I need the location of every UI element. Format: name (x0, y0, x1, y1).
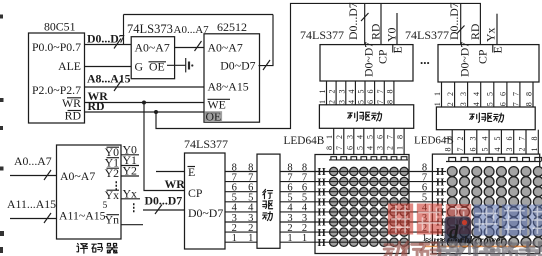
LED matrix DS2 LED64B (432, 154, 542, 253)
svg-text:8: 8 (396, 135, 405, 139)
junction RD node (154, 110, 158, 114)
SRAM 62512 U3 (204, 20, 260, 124)
svg-text:1: 1 (433, 92, 442, 96)
scan artifact marks left edge (0, 15, 4, 254)
wire RD drop U7 (369, 3, 383, 44)
decoder output pin Y2 (105, 164, 139, 181)
svg-text:ALE: ALE (58, 59, 81, 73)
svg-text:RD: RD (468, 23, 482, 40)
svg-text:7: 7 (456, 148, 465, 152)
wire RD net (85, 99, 205, 113)
decoder output pin Yx (105, 187, 140, 203)
watermark cursive slogan (425, 236, 535, 248)
row wires driver to LED matrix with pin numbers (280, 162, 315, 244)
svg-text:RD: RD (88, 99, 105, 113)
svg-text:4: 4 (355, 135, 364, 139)
svg-text:4: 4 (472, 102, 481, 106)
svg-text:1: 1 (530, 148, 539, 152)
wire address bus A8...A15 (85, 72, 205, 92)
svg-text:D0~D7: D0~D7 (458, 42, 472, 77)
svg-text:2: 2 (456, 137, 465, 141)
svg-text:6: 6 (366, 90, 375, 94)
svg-text:P2.0~P2.7: P2.0~P2.7 (32, 83, 81, 97)
svg-text:2: 2 (446, 92, 455, 96)
svg-text:8: 8 (385, 100, 394, 104)
bus slash on 62512 data stub (263, 60, 270, 70)
LED matrix DS1 LED64B (315, 155, 409, 254)
svg-text:6: 6 (366, 100, 375, 104)
svg-text:5: 5 (365, 135, 374, 139)
svg-text:5: 5 (485, 102, 494, 106)
svg-text:6: 6 (498, 92, 507, 96)
wire Y0 drop U7 enable (385, 13, 399, 45)
svg-text:1: 1 (433, 102, 442, 106)
svg-text:3: 3 (468, 137, 477, 141)
column driver 列驱动 U10 (436, 107, 535, 130)
svg-text:7: 7 (511, 102, 520, 106)
svg-text:5: 5 (103, 201, 108, 211)
svg-text:5: 5 (485, 92, 494, 96)
svg-text:74LS377: 74LS377 (300, 28, 344, 42)
svg-text:8: 8 (525, 92, 534, 96)
svg-text:1: 1 (302, 233, 307, 244)
svg-text:1: 1 (396, 146, 405, 150)
junction WR node (142, 101, 146, 105)
svg-text:1: 1 (248, 233, 253, 244)
label 译码器 decoder caption (77, 244, 88, 254)
svg-text:6: 6 (468, 148, 477, 152)
svg-text:1: 1 (318, 90, 327, 94)
svg-text:H: H (318, 238, 326, 249)
svg-text:1: 1 (287, 233, 292, 244)
svg-text:3: 3 (345, 135, 354, 139)
svg-text:E: E (188, 165, 195, 179)
column wires U8 to column driver with pin numbers (433, 82, 534, 107)
svg-text:7: 7 (376, 100, 385, 104)
wire P0 data bus D0...D7 (85, 32, 132, 49)
svg-text:80C51: 80C51 (44, 20, 76, 34)
svg-text:A0~A7: A0~A7 (135, 41, 170, 55)
svg-text:A0...A7: A0...A7 (14, 154, 52, 168)
wire top data rail (124, 14, 274, 16)
svg-text:Y2: Y2 (123, 164, 138, 178)
svg-text:3: 3 (459, 102, 468, 106)
column latch 74LS377 U8 (405, 28, 539, 82)
svg-text:5: 5 (355, 146, 364, 150)
wire decoder input A11...A15 (7, 197, 57, 223)
decoder output pin Y1 (105, 153, 139, 170)
wire WR drop to row latch CP (144, 103, 185, 191)
decoder output pin Yn (105, 213, 143, 227)
svg-text:74LS377: 74LS377 (405, 28, 449, 42)
svg-text:4: 4 (493, 148, 502, 152)
wire Y2 to row latch E (156, 171, 185, 173)
svg-text:62512: 62512 (217, 20, 247, 34)
OE termination cell symbol (167, 58, 193, 72)
row wires to second LED matrix with pin numbers (409, 162, 432, 244)
row latch 74LS377 U5 (184, 137, 228, 249)
U8 pin E (491, 45, 505, 54)
label 列驱动 left column driver (348, 112, 358, 121)
wire A0~A7 latch to sram (175, 41, 204, 51)
svg-text:G: G (135, 60, 144, 74)
svg-text:6: 6 (498, 102, 507, 106)
svg-text:8: 8 (385, 90, 394, 94)
svg-text:8: 8 (325, 146, 334, 150)
svg-text:CP: CP (188, 186, 203, 200)
watermark logo tile (445, 217, 472, 244)
svg-text:3: 3 (337, 90, 346, 94)
svg-text:3: 3 (337, 100, 346, 104)
svg-text:LED64B: LED64B (414, 135, 454, 147)
svg-text:OE: OE (206, 110, 222, 124)
column wires right driver to LED matrix with pin numbers (444, 130, 539, 154)
decoder 译码器 U4 (57, 145, 122, 239)
column driver 列驱动 U9 (319, 105, 413, 129)
svg-text:1: 1 (318, 100, 327, 104)
svg-text:3: 3 (505, 148, 514, 152)
svg-text:2: 2 (518, 148, 527, 152)
column wires driver to LED matrix with pin numbers (325, 128, 404, 154)
svg-text:4: 4 (472, 92, 481, 96)
svg-text:8: 8 (444, 148, 453, 152)
svg-text:74LS373: 74LS373 (127, 22, 173, 36)
svg-text:2: 2 (446, 102, 455, 106)
svg-text:7: 7 (386, 135, 395, 139)
svg-text:A11~A15: A11~A15 (59, 209, 106, 223)
svg-text:D0...D7: D0...D7 (87, 32, 125, 46)
wire decoder input A0...A7 (10, 154, 57, 180)
label 行驱动 row driver (263, 189, 273, 198)
svg-text:74LS377: 74LS377 (184, 137, 228, 151)
svg-text:D0~D7: D0~D7 (362, 42, 376, 77)
svg-text:D0...D7: D0...D7 (447, 2, 461, 40)
svg-text:7: 7 (518, 137, 527, 141)
svg-text:Yx: Yx (484, 27, 498, 42)
microcontroller 80C51 U1 (29, 20, 85, 124)
column latch 74LS377 U7 (300, 28, 413, 81)
svg-text:A8~A15: A8~A15 (208, 80, 249, 94)
svg-text:⋮: ⋮ (129, 202, 140, 214)
svg-text:5: 5 (357, 100, 366, 104)
svg-text:5: 5 (357, 90, 366, 94)
svg-text:LED64B: LED64B (284, 135, 325, 147)
decoder output pin Y0 (105, 143, 139, 160)
wire WR net (85, 89, 205, 103)
svg-text:2: 2 (335, 135, 344, 139)
latch 74LS373 U2 (127, 22, 209, 79)
wire D bus drop U7 (346, 2, 369, 44)
svg-text:RD: RD (369, 23, 383, 40)
wire rail drop into 62512 D0~D7 (259, 15, 274, 66)
wire data bus into row latch (143, 194, 185, 215)
svg-text:A8...A15: A8...A15 (87, 72, 131, 86)
svg-text:2: 2 (328, 90, 337, 94)
svg-text:2: 2 (386, 146, 395, 150)
svg-text:3: 3 (375, 146, 384, 150)
row driver 行驱动 U6 (257, 154, 280, 248)
label 列驱动 right column driver (470, 113, 480, 122)
watermark red blocky characters (388, 203, 413, 234)
svg-text:8: 8 (525, 102, 534, 106)
svg-text:D0...D7: D0...D7 (346, 2, 360, 40)
svg-text:D0~D7: D0~D7 (220, 59, 255, 73)
column wires U7 to column driver with pin numbers (318, 81, 394, 105)
wire RD route to top right rail (156, 3, 480, 128)
svg-text:D0~D7: D0~D7 (188, 206, 223, 220)
svg-text:A0~A7: A0~A7 (208, 41, 243, 55)
svg-text:A11...A15: A11...A15 (7, 197, 56, 211)
svg-text:6: 6 (375, 135, 384, 139)
svg-text:7: 7 (376, 90, 385, 94)
svg-text:WR: WR (165, 177, 186, 191)
svg-text:CP: CP (376, 49, 390, 64)
svg-text:1: 1 (325, 135, 334, 139)
svg-text:4: 4 (347, 90, 356, 94)
watermark blue blocky characters (474, 204, 499, 235)
svg-text:Y0: Y0 (385, 27, 399, 42)
svg-text:7: 7 (335, 146, 344, 150)
wire D bus drop U8 (447, 2, 465, 44)
svg-text:3: 3 (459, 92, 468, 96)
svg-text:4: 4 (347, 100, 356, 104)
wire ALE to G (85, 66, 132, 68)
svg-text:CP: CP (476, 49, 490, 64)
svg-text:4: 4 (481, 137, 490, 141)
svg-text:...: ... (420, 52, 430, 67)
U7 pin E (391, 45, 405, 54)
svg-text:6: 6 (345, 146, 354, 150)
svg-text:5: 5 (481, 148, 490, 152)
wire Yx drop U8 enable (484, 14, 498, 45)
svg-text:8: 8 (530, 137, 539, 141)
svg-text:P0.0~P0.7: P0.0~P0.7 (32, 40, 81, 54)
svg-text:1: 1 (232, 233, 237, 244)
svg-text:4: 4 (365, 146, 374, 150)
svg-text:A0~A7: A0~A7 (60, 169, 95, 183)
wire data bus riser (123, 15, 125, 45)
row wires latch to row driver with pin numbers (225, 162, 257, 244)
svg-text:5: 5 (493, 137, 502, 141)
svg-text:6: 6 (505, 137, 514, 141)
svg-text:7: 7 (511, 92, 520, 96)
svg-text:D0...D7: D0...D7 (145, 194, 183, 208)
svg-text:2: 2 (328, 100, 337, 104)
watermark grey caption characters (384, 242, 404, 256)
